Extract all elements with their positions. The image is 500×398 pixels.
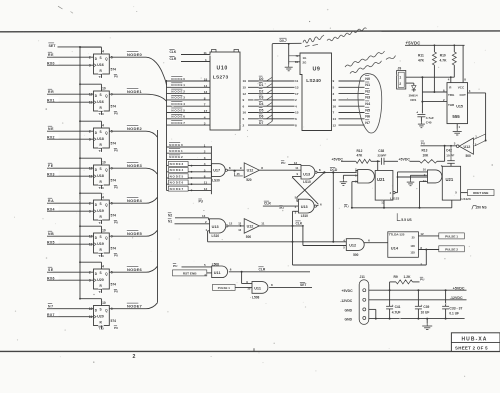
wire clock input RX0: [47, 60, 94, 66]
svg-text:NODE3: NODE3: [170, 162, 184, 166]
wire bus tap NODE4 to U17: [167, 168, 212, 173]
svg-text:12: 12: [229, 221, 233, 225]
wire U10 Q5 to U9 row D5: [243, 107, 295, 115]
svg-text:NODE3: NODE3: [171, 96, 185, 100]
wire 555 THR pin2: [421, 98, 447, 103]
svg-text:6: 6: [204, 175, 206, 179]
svg-text:4: 4: [204, 115, 206, 119]
svg-text:10K: 10K: [423, 153, 430, 157]
svg-text:8: 8: [295, 123, 297, 127]
svg-text:5.5 US: 5.5 US: [401, 218, 412, 222]
svg-text:NODE2: NODE2: [169, 155, 183, 159]
boxed label RST ENB: [173, 270, 212, 277]
svg-text:574: 574: [111, 214, 117, 218]
svg-text:L508: L508: [252, 295, 259, 299]
svg-text:U19: U19: [97, 209, 104, 213]
svg-text:1: 1: [204, 144, 206, 148]
wire CLR into U10 pin 1: [169, 55, 210, 61]
svg-text:4.7uF: 4.7uF: [426, 116, 434, 120]
wire U10 Q6 to U9 row D6: [243, 113, 295, 121]
svg-text:RR: RR: [48, 90, 54, 94]
svg-text:U18: U18: [97, 174, 104, 178]
wire bus tap NODE6 to U10: [167, 113, 211, 119]
wire set-branch to U18: [79, 157, 101, 165]
wire set-branch to U16: [79, 83, 101, 91]
wire U10 Q4 to U9 row D4: [243, 100, 295, 108]
svg-text:N1: N1: [168, 219, 172, 223]
svg-text:574: 574: [111, 283, 117, 287]
svg-text:SHEET 2 OF 5: SHEET 2 OF 5: [455, 345, 488, 350]
svg-text:D0: D0: [259, 77, 263, 81]
svg-text:DCD: DCD: [330, 168, 338, 172]
wire U17 output to U12a: [227, 166, 244, 176]
svg-text:D1: D1: [259, 83, 263, 87]
svg-text:PULSE 1: PULSE 1: [218, 286, 230, 290]
wire CLK into U10 pin 11: [169, 48, 210, 54]
svg-text:R12: R12: [357, 149, 363, 153]
svg-text:-12VDC: -12VDC: [340, 299, 353, 303]
wire U12c output PU net: [420, 140, 456, 147]
ground 555: [453, 129, 462, 135]
svg-text:+: +: [392, 303, 394, 307]
svg-text:11: 11: [295, 166, 298, 170]
svg-text:+5VDC: +5VDC: [342, 289, 354, 293]
flip-flop U16 (a) row 0 574: [89, 49, 118, 79]
wire U12d output to U14: [364, 238, 388, 242]
gate U13c LS10 NAND: [206, 219, 228, 238]
capacitor C40 4.7uF: [416, 110, 434, 124]
wire D input N7: [47, 303, 94, 309]
wire set-branch to U16: [79, 46, 101, 54]
svg-text:7: 7: [333, 111, 335, 115]
svg-text:PU: PU: [114, 149, 118, 153]
svg-text:RST ENB: RST ENB: [183, 272, 197, 276]
svg-text:U16: U16: [97, 100, 104, 104]
wire clock input RX5: [47, 239, 94, 245]
svg-text:CLK: CLK: [170, 50, 177, 54]
svg-text:12: 12: [238, 222, 241, 226]
svg-text:PU: PU: [421, 141, 426, 145]
svg-text:NE: NE: [48, 127, 54, 131]
capacitor C42 10PF: [446, 145, 455, 166]
svg-text:NODE3: NODE3: [127, 163, 143, 168]
svg-text:C38: C38: [378, 149, 384, 153]
svg-text:U10: U10: [217, 66, 228, 72]
svg-text:S: S: [100, 56, 102, 60]
svg-text:12: 12: [204, 187, 208, 191]
wire 555 pin1 to ground: [457, 124, 460, 129]
wire CLK net: [259, 220, 304, 246]
svg-text:10: 10: [247, 286, 251, 290]
svg-text:4: 4: [102, 49, 104, 53]
svg-text:574: 574: [111, 68, 117, 72]
wire set-branch to U20: [79, 298, 101, 306]
wire clock input RX4: [47, 206, 94, 212]
svg-text:1N914: 1N914: [409, 93, 418, 97]
svg-text:PU: PU: [281, 161, 286, 165]
net label -12VDC J11: [340, 299, 353, 303]
ground U21b pin9: [407, 180, 415, 186]
svg-text:U11: U11: [254, 286, 261, 290]
wire U12a output to latch U13a: [259, 166, 301, 170]
wire set-branch to U19: [79, 192, 101, 200]
wire U21a pin1 to ground: [343, 175, 357, 179]
wire U9 enable pins to ground: [288, 43, 300, 65]
svg-text:RX3: RX3: [47, 173, 55, 177]
svg-text:-12VDC: -12VDC: [450, 296, 463, 300]
net +5VDC top right: [406, 40, 421, 45]
wire U12d pin4 from DCD node: [293, 171, 347, 243]
svg-text:10: 10: [102, 86, 106, 90]
svg-text:D6: D6: [259, 115, 263, 119]
svg-text:GND: GND: [345, 317, 353, 321]
svg-text:THR: THR: [448, 103, 455, 107]
svg-text:13: 13: [381, 200, 385, 204]
wire U9 output N0: [333, 75, 371, 84]
title block: [451, 333, 500, 352]
svg-text:U12: U12: [247, 169, 254, 173]
wire U9 output N6: [333, 112, 371, 121]
svg-text:LS123: LS123: [462, 197, 471, 201]
ground U21a pin1: [340, 179, 348, 185]
svg-text:+5VDC: +5VDC: [453, 286, 465, 290]
wire D input RE: [47, 51, 94, 57]
node bus vertical B: [157, 130, 159, 303]
svg-text:J9: J9: [398, 67, 402, 71]
svg-text:NODE0: NODE0: [127, 52, 143, 57]
svg-text:TTLDA-125: TTLDA-125: [389, 233, 405, 237]
connector J11: [359, 275, 369, 324]
svg-text:10 UF: 10 UF: [421, 311, 430, 315]
svg-text:12: 12: [420, 232, 424, 236]
wire U21b output to RDET ENB: [461, 190, 494, 196]
svg-text:NODE5: NODE5: [170, 174, 184, 178]
resistor R13 10K: [410, 146, 445, 163]
svg-text:500: 500: [246, 235, 252, 239]
one-shot U21a LS123: [375, 171, 399, 201]
wire U9 output N7: [333, 119, 371, 128]
svg-text:PU: PU: [199, 200, 204, 204]
svg-text:17: 17: [295, 92, 299, 96]
svg-text:3: 3: [204, 122, 206, 126]
svg-text:CLK: CLK: [296, 222, 303, 226]
border tick mark: [253, 348, 255, 351]
wire output NODE4: [109, 197, 157, 204]
svg-text:47K: 47K: [357, 153, 364, 157]
wire reset stub U20: [101, 289, 103, 293]
svg-text:U16: U16: [97, 63, 104, 67]
wire U11b pin9 from CLR: [242, 272, 252, 284]
svg-text:NODE7: NODE7: [127, 303, 143, 308]
svg-text:19: 19: [243, 79, 247, 83]
svg-text:RX2: RX2: [47, 136, 55, 140]
wire J9 pin2 to diode: [406, 83, 414, 85]
svg-text:S: S: [100, 308, 102, 312]
svg-text:CLR: CLR: [259, 267, 266, 271]
svg-text:NODE1: NODE1: [169, 149, 183, 153]
ground C40: [418, 122, 425, 128]
net label +5VDC J11: [342, 289, 354, 293]
svg-text:PU: PU: [280, 206, 284, 210]
wire U13c output to U12b: [228, 221, 244, 226]
svg-text:PU: PU: [173, 264, 178, 268]
svg-text:14: 14: [204, 84, 208, 88]
handwritten oval around N0-N7: [358, 74, 382, 133]
wire U9 output N3: [333, 94, 371, 103]
svg-text:R10: R10: [440, 54, 446, 58]
svg-text:520: 520: [246, 178, 252, 182]
node bus vertical A: [166, 80, 168, 191]
svg-text:U13: U13: [303, 172, 310, 176]
wire bus tap NODE0 to U10: [167, 75, 211, 81]
svg-text:4.7K: 4.7K: [440, 58, 448, 62]
wire clock input RX1: [47, 97, 94, 103]
flip-flop U20 (b) row 7 574: [89, 301, 118, 331]
wire bus tap NODE7 to U10: [167, 120, 211, 126]
svg-text:150 NS: 150 NS: [475, 206, 487, 210]
wire +5VDC row: [369, 286, 467, 291]
capacitor C38 220PF: [378, 149, 399, 165]
svg-text:CLR: CLR: [264, 202, 271, 206]
svg-text:N3: N3: [365, 96, 370, 100]
capacitor C39 10UF: [415, 290, 430, 318]
wire SET horizontal: [58, 46, 102, 48]
svg-text:S: S: [100, 202, 102, 206]
wire D input NB: [47, 230, 94, 236]
svg-text:RX1: RX1: [47, 99, 55, 103]
flip-flop U20 (a) row 6 574: [89, 264, 118, 294]
svg-text:574: 574: [111, 247, 117, 251]
svg-text:574: 574: [111, 319, 117, 323]
svg-text:S: S: [100, 130, 102, 134]
wire clock input RX7: [47, 312, 94, 318]
wire R12/C38 node into U21a: [377, 161, 379, 170]
ground J11 rail: [422, 319, 432, 330]
boxed label PULSE 1 into U11b: [213, 284, 253, 290]
svg-text:N2: N2: [365, 89, 370, 93]
svg-text:6: 6: [295, 117, 297, 121]
wire U21a outputs to U21b gate: [395, 172, 427, 193]
svg-text:+: +: [421, 303, 423, 307]
wire reset stub U18: [101, 185, 103, 189]
wire U10 Q3 to U9 row D3: [243, 94, 295, 102]
svg-text:15: 15: [295, 111, 299, 115]
wire D input RA: [47, 197, 94, 203]
wire U21a pin3 to PU line: [352, 182, 358, 208]
wire 555 pin4 pin8 stubs: [448, 45, 467, 82]
wire reset stub U16: [101, 74, 103, 78]
flip-flop U18 (b) row 3 574: [89, 160, 118, 190]
net label D0-7: [279, 37, 287, 43]
net +5VDC label right of C38: [399, 157, 411, 161]
svg-text:PU: PU: [114, 254, 118, 258]
svg-text:5: 5: [204, 168, 206, 172]
svg-text:U21: U21: [377, 177, 385, 182]
svg-text:LS273: LS273: [213, 75, 229, 81]
wire reset stub U19: [101, 220, 103, 224]
svg-text:U13: U13: [301, 205, 308, 209]
svg-text:CLR: CLR: [170, 57, 177, 61]
svg-text:NODE4: NODE4: [171, 102, 185, 106]
svg-text:HUB-XA: HUB-XA: [461, 336, 487, 342]
svg-text:47K: 47K: [418, 58, 425, 62]
timer U15 555: [447, 83, 468, 124]
handwritten note top electrical: [303, 28, 367, 47]
svg-text:U17: U17: [213, 169, 220, 173]
svg-text:RX7: RX7: [47, 313, 55, 317]
svg-text:RDET ENB: RDET ENB: [473, 191, 489, 195]
gate U12c inverter left-pointing: [454, 134, 477, 158]
svg-text:2: 2: [399, 82, 401, 86]
gate U13b LS10 NAND: [295, 196, 322, 218]
svg-text:100: 100: [410, 244, 415, 248]
svg-text:GND: GND: [345, 308, 353, 312]
svg-text:555: 555: [452, 114, 460, 119]
gate U13a LS10 NAND: [295, 166, 317, 185]
svg-text:CR1: CR1: [410, 98, 416, 102]
svg-text:SET: SET: [49, 44, 57, 48]
svg-text:NODE5: NODE5: [127, 231, 143, 236]
svg-text:PU: PU: [114, 326, 118, 330]
svg-text:2: 2: [133, 354, 136, 360]
wire U9 output N5: [333, 106, 371, 115]
wire clock input RX3: [47, 171, 94, 177]
timing note 5.5 US: [397, 213, 412, 222]
wire N2 input: [168, 212, 210, 220]
resistor R11 47K: [418, 45, 436, 93]
svg-text:U20: U20: [97, 278, 104, 282]
svg-text:S: S: [100, 167, 102, 171]
pencil mark top left: [58, 6, 63, 9]
svg-text:12: 12: [294, 161, 298, 165]
svg-text:U12: U12: [464, 145, 471, 149]
svg-text:PULSE 2: PULSE 2: [445, 247, 458, 251]
svg-text:S: S: [100, 271, 102, 275]
wire U13c pin1 from feedback line: [208, 231, 210, 242]
wire reset stub U19: [101, 253, 103, 257]
svg-text:15: 15: [243, 86, 247, 90]
wire D input NE: [47, 125, 94, 131]
svg-text:2: 2: [243, 123, 245, 127]
svg-text:NODE5: NODE5: [171, 108, 185, 112]
svg-text:C33 - 37: C33 - 37: [449, 306, 462, 310]
flip-flop U19 (a) row 4 574: [89, 195, 118, 225]
resistor R9 1.2K: [390, 275, 425, 290]
svg-text:13: 13: [202, 214, 206, 218]
svg-text:1: 1: [399, 76, 401, 80]
delay line U14 TTLDA-125: [388, 232, 419, 257]
wire bus tap NODE5 to U10: [167, 107, 211, 113]
svg-text:4: 4: [102, 195, 104, 199]
capacitor C33-37 0.1UF: [442, 290, 462, 318]
wire U11b output SET: [269, 281, 312, 287]
svg-text:U11: U11: [214, 271, 221, 275]
gate U12d AND 500: [346, 239, 364, 258]
gate NAND input of U21a: [355, 167, 374, 183]
svg-text:R13: R13: [422, 149, 428, 153]
svg-text:17: 17: [204, 109, 208, 113]
net label GND J11 pin4: [345, 317, 353, 321]
wire CLR into U13b pin 4: [263, 200, 299, 206]
svg-text:RX6: RX6: [47, 277, 55, 281]
svg-text:11: 11: [204, 51, 208, 55]
wire -12VDC row: [369, 296, 467, 300]
svg-text:9: 9: [333, 79, 335, 83]
svg-text:PU: PU: [344, 205, 349, 209]
wire output NODE6: [109, 266, 157, 273]
svg-text:N7: N7: [365, 121, 370, 125]
net SET label: [48, 42, 56, 48]
one-shot U21b LS123: [441, 164, 471, 201]
svg-text:RX5: RX5: [47, 241, 55, 245]
wire U11a output CLR: [229, 266, 310, 273]
svg-text:PU: PU: [114, 112, 118, 116]
wire D input RR: [47, 88, 94, 94]
wire U21b pin9 ground: [411, 175, 428, 179]
svg-text:VCC: VCC: [458, 85, 465, 89]
resistor R12 47K: [341, 149, 380, 164]
svg-text:12: 12: [333, 123, 337, 127]
flip-flop U18 (a) row 2 574: [89, 123, 118, 153]
wire output NODE0: [109, 51, 166, 86]
svg-text:10: 10: [102, 228, 106, 232]
svg-text:OUT: OUT: [460, 93, 467, 97]
svg-text:D0-7: D0-7: [280, 39, 287, 43]
wire bus tap NODE7 to U17: [167, 186, 212, 191]
svg-text:1.2K: 1.2K: [404, 275, 412, 279]
border bottom line: [0, 350, 500, 352]
wire output NODE1: [109, 88, 166, 102]
svg-text:45: 45: [237, 172, 241, 176]
wire output NODE2: [109, 125, 157, 138]
svg-text:574: 574: [111, 105, 117, 109]
wire J9 pin1 to timing node: [406, 76, 455, 78]
svg-text:N7: N7: [48, 305, 54, 309]
svg-text:NODE6: NODE6: [171, 115, 185, 119]
svg-text:7: 7: [204, 103, 206, 107]
wire U9 output N4: [333, 100, 372, 109]
wire latch cross-coupling: [293, 172, 325, 204]
svg-text:J11: J11: [360, 275, 365, 279]
svg-text:18: 18: [204, 78, 208, 82]
svg-text:C39: C39: [423, 305, 429, 309]
svg-text:NODE6: NODE6: [127, 267, 143, 272]
wire bus tap NODE3 to U10: [167, 94, 211, 100]
gate U12a inverter 520: [244, 163, 259, 182]
svg-text:220PF: 220PF: [378, 153, 387, 157]
svg-text:NODE1: NODE1: [171, 83, 185, 87]
wire 555 TRIG pin6: [422, 88, 447, 92]
svg-text:L510: L510: [301, 214, 308, 218]
svg-text:TRG: TRG: [448, 93, 455, 97]
svg-text:U14: U14: [391, 246, 399, 251]
svg-text:+5VDC: +5VDC: [399, 157, 411, 161]
wire set-branch to U19: [79, 225, 101, 233]
flip-flop U19 (b) row 5 574: [89, 228, 118, 258]
svg-text:U19: U19: [97, 242, 104, 246]
flip-flop U16 (b) row 1 574: [89, 86, 118, 116]
net PU pull-up on U13a pin 12: [281, 160, 301, 166]
svg-text:10: 10: [102, 160, 106, 164]
net PU line bottom of one-shots: [344, 200, 452, 209]
net label GND J11 pin3: [345, 308, 353, 312]
wire N1 input: [168, 218, 210, 224]
svg-text:U13: U13: [212, 225, 219, 229]
svg-text:PU: PU: [114, 75, 118, 79]
svg-text:D4: D4: [259, 102, 263, 106]
svg-text:6: 6: [243, 104, 245, 108]
svg-text:C41: C41: [395, 305, 401, 309]
